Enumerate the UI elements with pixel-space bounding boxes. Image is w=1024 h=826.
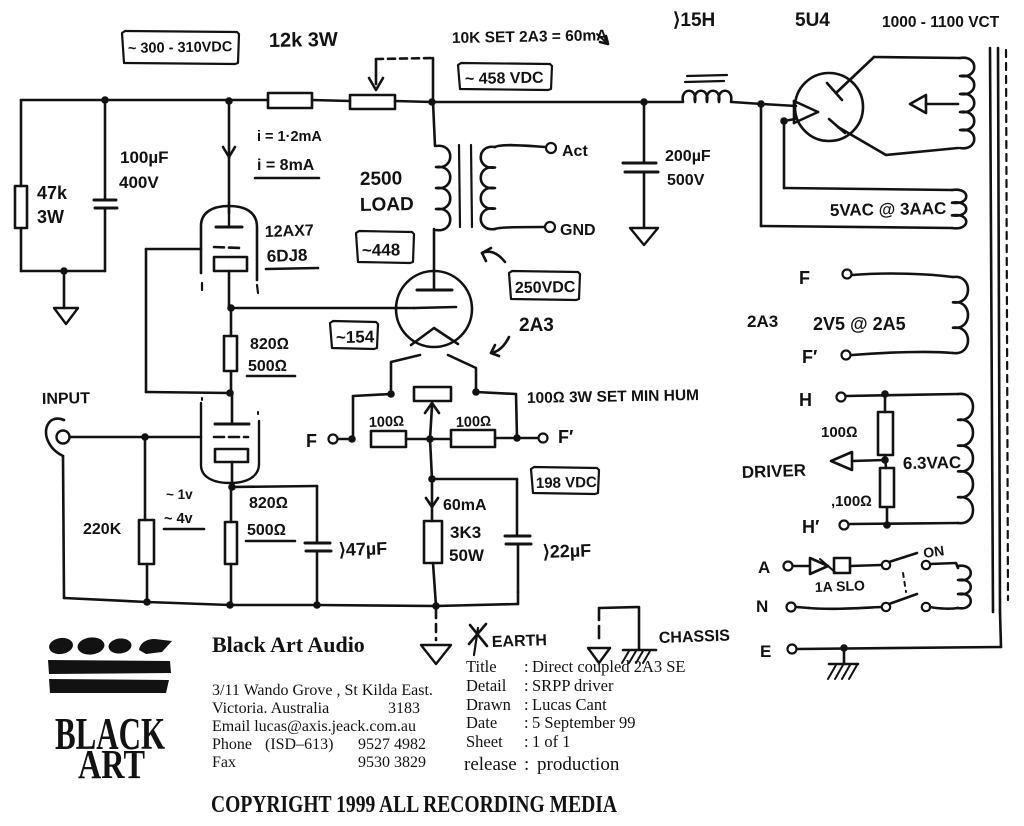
- svg-text:i = 8mA: i = 8mA: [257, 157, 315, 174]
- svg-text:,100Ω: ,100Ω: [831, 493, 872, 510]
- svg-text:Phone: Phone: [212, 736, 252, 753]
- svg-text:Black Art Audio: Black Art Audio: [212, 632, 365, 657]
- svg-text:Drawn: Drawn: [466, 695, 511, 714]
- svg-text:~ 458 VDC: ~ 458 VDC: [465, 70, 544, 88]
- svg-text:5U4: 5U4: [795, 10, 830, 31]
- svg-text:production: production: [537, 754, 620, 775]
- svg-text:E: E: [760, 642, 771, 661]
- svg-text:(ISD–613): (ISD–613): [265, 736, 333, 753]
- svg-text::: :: [524, 713, 529, 732]
- svg-text:LOAD: LOAD: [360, 194, 414, 216]
- svg-text:220K: 220K: [83, 521, 122, 538]
- svg-text:9527 4982: 9527 4982: [358, 736, 426, 753]
- svg-text:500Ω: 500Ω: [247, 522, 286, 539]
- svg-text:Act: Act: [562, 143, 588, 160]
- svg-text:198 VDC: 198 VDC: [536, 474, 597, 492]
- svg-text:CHASSIS: CHASSIS: [659, 628, 731, 647]
- svg-text:~154: ~154: [336, 327, 375, 347]
- svg-text:F′: F′: [558, 427, 573, 447]
- svg-text:500Ω: 500Ω: [248, 358, 287, 375]
- svg-text:SRPP driver: SRPP driver: [532, 676, 614, 695]
- svg-text:3K3: 3K3: [450, 523, 481, 542]
- svg-text:12k 3W: 12k 3W: [269, 29, 338, 52]
- svg-text:Sheet: Sheet: [466, 732, 503, 751]
- svg-text:2500: 2500: [360, 168, 403, 190]
- svg-text:3W: 3W: [37, 207, 64, 227]
- svg-text:~448: ~448: [362, 240, 401, 260]
- svg-text:1A SLO: 1A SLO: [815, 577, 866, 595]
- svg-text:12AX7: 12AX7: [265, 222, 315, 241]
- svg-text:820Ω: 820Ω: [249, 495, 288, 512]
- svg-text:47k: 47k: [37, 183, 68, 203]
- svg-text:~ 300 - 310VDC: ~ 300 - 310VDC: [128, 39, 233, 57]
- svg-text::: :: [524, 732, 529, 751]
- svg-text::: :: [524, 676, 529, 695]
- svg-text:Victoria. Australia: Victoria. Australia: [212, 700, 329, 717]
- svg-text:1 of 1: 1 of 1: [532, 732, 571, 751]
- svg-text::: :: [524, 754, 529, 775]
- svg-text:i = 1·2mA: i = 1·2mA: [257, 129, 322, 145]
- svg-text:Detail: Detail: [466, 676, 507, 695]
- svg-text:Email lucas@axis.jeack.com.au: Email lucas@axis.jeack.com.au: [212, 718, 416, 735]
- svg-text:200µF: 200µF: [665, 148, 711, 165]
- svg-text:ART: ART: [78, 741, 145, 787]
- svg-text:EARTH: EARTH: [492, 632, 548, 651]
- svg-text:ON: ON: [922, 542, 945, 561]
- svg-text:~ 4v: ~ 4v: [164, 511, 193, 527]
- svg-text:400V: 400V: [119, 173, 159, 192]
- svg-text:⟩47µF: ⟩47µF: [338, 538, 387, 560]
- svg-text:2A3: 2A3: [519, 315, 554, 336]
- svg-text:H: H: [799, 390, 812, 410]
- svg-text:Title: Title: [466, 657, 497, 676]
- svg-text:6DJ8: 6DJ8: [266, 246, 307, 266]
- svg-text:6.3VAC: 6.3VAC: [903, 453, 962, 473]
- svg-text:60mA: 60mA: [443, 497, 487, 514]
- svg-text:⟩15H: ⟩15H: [673, 10, 715, 31]
- svg-text:Direct coupled 2A3 SE: Direct coupled 2A3 SE: [532, 657, 686, 676]
- svg-text::: :: [524, 695, 529, 714]
- svg-text:100Ω: 100Ω: [456, 414, 492, 431]
- svg-text:A: A: [758, 558, 770, 577]
- svg-text:INPUT: INPUT: [42, 390, 91, 408]
- svg-text:DRIVER: DRIVER: [741, 461, 806, 482]
- svg-text:500V: 500V: [667, 172, 705, 189]
- svg-text:F′: F′: [802, 347, 817, 367]
- svg-text:9530 3829: 9530 3829: [358, 754, 426, 771]
- svg-text:release: release: [464, 754, 517, 775]
- svg-text:⟩22µF: ⟩22µF: [542, 540, 591, 562]
- svg-text:3/11 Wando Grove , St Kilda Ea: 3/11 Wando Grove , St Kilda East.: [212, 682, 433, 699]
- svg-text:1000 - 1100 VCT: 1000 - 1100 VCT: [882, 14, 1000, 31]
- svg-text:5VAC @ 3AAC: 5VAC @ 3AAC: [830, 199, 947, 220]
- svg-text:100Ω: 100Ω: [821, 424, 858, 441]
- svg-text:~ 1v: ~ 1v: [166, 487, 193, 502]
- svg-text:GND: GND: [560, 222, 596, 239]
- svg-text:N: N: [756, 597, 768, 616]
- svg-text:F: F: [306, 431, 317, 451]
- svg-text:F: F: [799, 268, 810, 288]
- svg-text:100Ω 3W SET MIN HUM: 100Ω 3W SET MIN HUM: [527, 387, 699, 407]
- svg-text:50W: 50W: [449, 546, 485, 565]
- svg-text:820Ω: 820Ω: [250, 336, 289, 353]
- svg-text:2V5 @ 2A5: 2V5 @ 2A5: [813, 314, 906, 334]
- svg-text::: :: [524, 657, 529, 676]
- svg-text:COPYRIGHT 1999 ALL RECORDING M: COPYRIGHT 1999 ALL RECORDING MEDIA: [211, 792, 618, 818]
- svg-text:3183: 3183: [388, 700, 420, 717]
- svg-text:10K SET 2A3 = 60mA: 10K SET 2A3 = 60mA: [452, 27, 608, 47]
- svg-text:H′: H′: [802, 517, 819, 537]
- svg-text:100Ω: 100Ω: [369, 414, 405, 431]
- svg-text:100µF: 100µF: [120, 148, 169, 167]
- svg-text:2A3: 2A3: [747, 312, 778, 331]
- svg-text:5 September 99: 5 September 99: [532, 713, 636, 732]
- svg-text:Fax: Fax: [212, 754, 236, 771]
- svg-text:Lucas Cant: Lucas Cant: [532, 695, 607, 714]
- svg-text:250VDC: 250VDC: [515, 279, 576, 297]
- svg-text:Date: Date: [466, 713, 497, 732]
